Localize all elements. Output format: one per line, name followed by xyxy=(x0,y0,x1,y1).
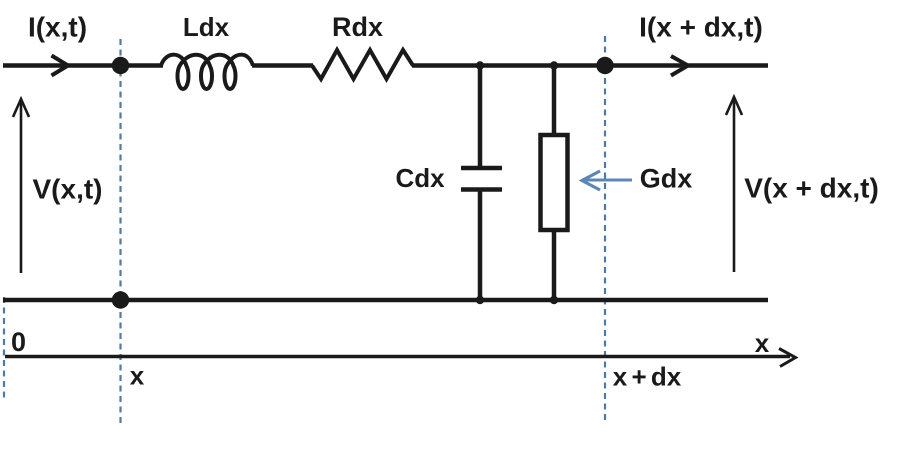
wire between inductor and resistor xyxy=(252,63,313,68)
svg-text:x: x xyxy=(755,328,770,358)
pointer arrow to Gdx xyxy=(584,179,632,182)
conductance Gdx top wire xyxy=(552,66,557,136)
junction dot capacitor bottom xyxy=(476,296,484,304)
svg-text:x + dx: x + dx xyxy=(613,362,682,392)
x axis arrowhead xyxy=(779,349,796,367)
capacitor Cdx plates xyxy=(461,166,502,171)
junction dot conductance bottom xyxy=(550,296,558,304)
conductance Gdx bottom wire xyxy=(552,230,557,302)
svg-text:V(x,t): V(x,t) xyxy=(33,174,103,205)
svg-text:I(x,t): I(x,t) xyxy=(28,12,87,43)
svg-text:x: x xyxy=(130,361,145,391)
dashed line at origin xyxy=(3,297,5,398)
current arrow I(x+dx,t) xyxy=(671,56,688,76)
voltage arrow V(x,t) xyxy=(20,101,23,273)
dashed line at x xyxy=(119,39,121,425)
dashed line at x+dx xyxy=(604,36,606,424)
top wire right segment xyxy=(412,63,768,68)
svg-text:0: 0 xyxy=(11,327,26,357)
junction dot capacitor top xyxy=(476,61,484,69)
junction dot conductance top xyxy=(550,61,558,69)
svg-text:Gdx: Gdx xyxy=(640,164,693,194)
capacitor Cdx top wire xyxy=(478,66,483,169)
voltage arrow V(x+dx,t) xyxy=(733,99,736,272)
top wire left segment xyxy=(3,63,163,68)
inductor Ldx xyxy=(161,55,253,89)
node dot at x+dx (top) xyxy=(596,57,613,74)
capacitor Cdx bottom wire xyxy=(478,190,483,303)
bottom wire xyxy=(3,298,768,303)
svg-text:Rdx: Rdx xyxy=(332,12,383,42)
conductance Gdx box xyxy=(541,135,568,230)
svg-text:V(x + dx,t): V(x + dx,t) xyxy=(744,173,879,204)
svg-text:Ldx: Ldx xyxy=(183,12,230,42)
x axis xyxy=(5,355,790,358)
node dot at x (bottom) xyxy=(112,291,129,308)
svg-text:Cdx: Cdx xyxy=(395,163,445,193)
current arrow I(x,t) xyxy=(52,56,69,76)
svg-text:I(x + dx,t): I(x + dx,t) xyxy=(639,12,763,43)
node dot at x (top) xyxy=(112,57,129,74)
resistor Rdx xyxy=(312,50,413,79)
